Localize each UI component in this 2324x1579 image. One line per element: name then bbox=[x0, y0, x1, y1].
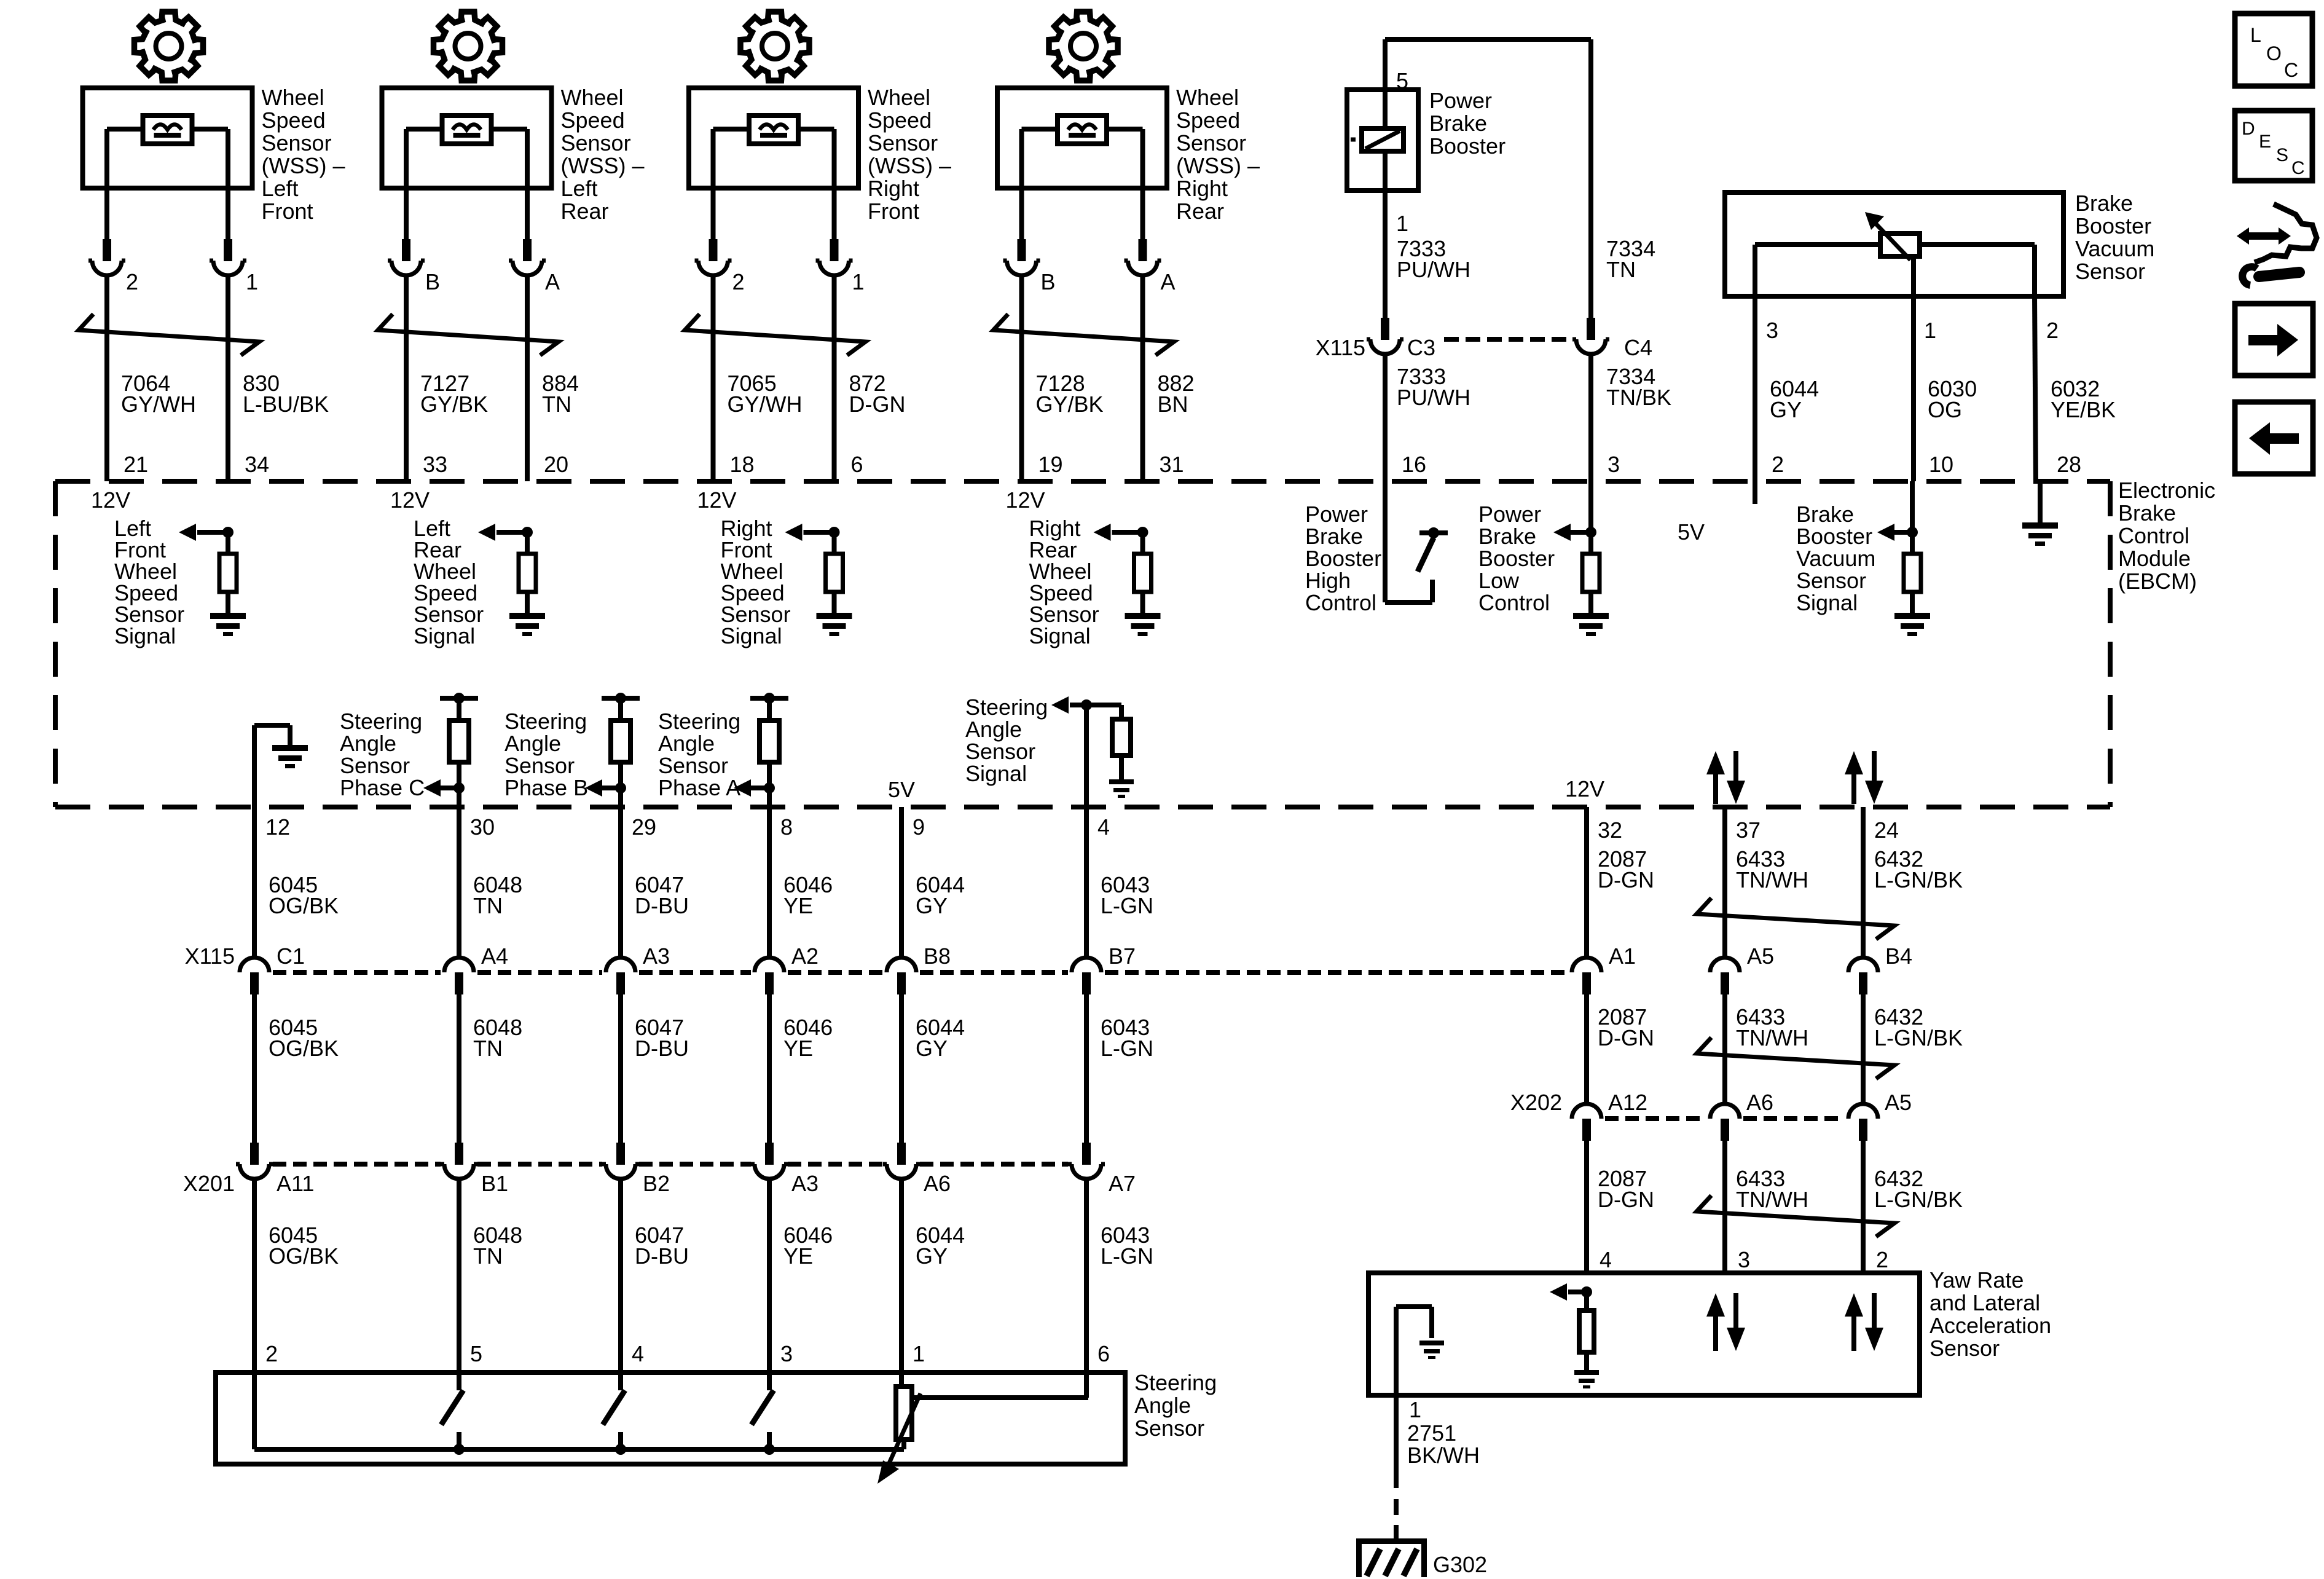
svg-text:2: 2 bbox=[126, 269, 138, 294]
pull-up resistor bbox=[226, 532, 230, 554]
Left Front WSS signal arrow and junction bbox=[222, 527, 234, 538]
svg-text:L-GN/BK: L-GN/BK bbox=[1874, 1187, 1963, 1212]
svg-text:Angle: Angle bbox=[658, 731, 715, 756]
wire bbox=[226, 275, 230, 481]
svg-text:Low: Low bbox=[1478, 568, 1520, 593]
svg-text:A: A bbox=[1161, 269, 1176, 294]
svg-text:Brake: Brake bbox=[1796, 502, 1854, 527]
svg-text:Sensor: Sensor bbox=[1176, 130, 1246, 156]
X115 row dashes bbox=[273, 970, 441, 975]
svg-text:1: 1 bbox=[913, 1341, 925, 1366]
svg-text:Wheel: Wheel bbox=[561, 85, 624, 110]
svg-text:TN/WH: TN/WH bbox=[1736, 1025, 1808, 1050]
svg-text:X115: X115 bbox=[185, 943, 235, 969]
connector X115 B7 bbox=[1082, 972, 1091, 994]
twisted pair symbol bbox=[1697, 1038, 1894, 1079]
Steering Angle Sensor Phase C pull-up bbox=[440, 696, 478, 701]
svg-text:Angle: Angle bbox=[1134, 1393, 1191, 1418]
svg-text:Booster: Booster bbox=[2075, 213, 2151, 238]
svg-text:34: 34 bbox=[245, 452, 269, 477]
Steering Angle Sensor Phase A pull-up bbox=[750, 696, 788, 701]
svg-text:37: 37 bbox=[1736, 817, 1761, 843]
Electronic Brake Control Module (EBCM) dashed outline bbox=[55, 479, 2110, 484]
svg-text:TN/BK: TN/BK bbox=[1606, 385, 1671, 410]
svg-text:A5: A5 bbox=[1885, 1090, 1912, 1115]
svg-text:Sensor: Sensor bbox=[658, 753, 728, 778]
svg-text:Rear: Rear bbox=[1176, 199, 1224, 224]
svg-text:2: 2 bbox=[1772, 452, 1784, 477]
svg-text:Booster: Booster bbox=[1429, 133, 1505, 159]
yaw internal ground trace bbox=[1396, 1304, 1432, 1309]
svg-text:Left: Left bbox=[262, 176, 299, 201]
connector terminal 2 bbox=[709, 239, 718, 261]
connector X115 A4 bbox=[455, 972, 463, 994]
svg-text:A3: A3 bbox=[791, 1171, 819, 1196]
svg-text:3: 3 bbox=[1766, 318, 1778, 343]
wire bbox=[832, 275, 837, 481]
svg-text:OG/BK: OG/BK bbox=[269, 1036, 339, 1061]
wire bbox=[767, 807, 772, 958]
svg-text:OG: OG bbox=[1928, 397, 1962, 422]
svg-text:Brake: Brake bbox=[1478, 524, 1536, 549]
WSS Right Front internal wires bbox=[713, 127, 750, 132]
svg-text:TN: TN bbox=[473, 1036, 503, 1061]
svg-text:32: 32 bbox=[1598, 817, 1622, 843]
wire bbox=[1383, 191, 1388, 318]
connector-view icon (wrench) bbox=[2243, 232, 2285, 240]
svg-text:Sensor: Sensor bbox=[340, 753, 410, 778]
WSS Right Rear internal wires bbox=[1022, 127, 1058, 132]
svg-text:12V: 12V bbox=[1565, 776, 1604, 801]
svg-text:Power: Power bbox=[1478, 502, 1541, 527]
svg-text:O: O bbox=[2266, 42, 2282, 65]
svg-text:Right: Right bbox=[1176, 176, 1228, 201]
BBVS internal wire bbox=[1755, 242, 2035, 247]
svg-text:Sensor: Sensor bbox=[504, 753, 575, 778]
svg-text:TN/WH: TN/WH bbox=[1736, 1187, 1808, 1212]
svg-text:D-BU: D-BU bbox=[635, 1036, 689, 1061]
svg-text:X201: X201 bbox=[183, 1171, 235, 1196]
svg-text:PU/WH: PU/WH bbox=[1397, 257, 1470, 282]
Wheel Speed Sensor (WSS) - Right Rear box bbox=[997, 88, 1167, 188]
WSS Left Front sensor element bbox=[143, 116, 192, 144]
Yaw Rate and Lateral Acceleration Sensor box bbox=[1368, 1273, 1920, 1395]
svg-text:GY: GY bbox=[916, 893, 948, 918]
SAS track link wire bbox=[912, 1395, 1088, 1400]
svg-text:Steering: Steering bbox=[340, 709, 422, 734]
connector X115 A5 bbox=[1721, 972, 1729, 994]
wire bbox=[1861, 807, 1866, 958]
connector terminal B bbox=[402, 239, 410, 261]
svg-text:L-BU/BK: L-BU/BK bbox=[243, 392, 329, 417]
svg-text:B8: B8 bbox=[924, 943, 951, 969]
yaw pin4 signal assembly bbox=[1581, 1286, 1592, 1297]
svg-text:X115: X115 bbox=[1316, 335, 1365, 360]
Right Rear WSS signal arrow and junction bbox=[1137, 527, 1148, 538]
wire bbox=[767, 994, 772, 1143]
Steering Angle Sensor Phase B pull-up bbox=[602, 696, 640, 701]
svg-text:Rear: Rear bbox=[561, 199, 609, 224]
junction bbox=[615, 1444, 626, 1455]
connector X201 A3 bbox=[765, 1143, 774, 1165]
wire bbox=[457, 1179, 461, 1372]
wire bbox=[618, 994, 623, 1143]
connector X115 A2 bbox=[765, 972, 774, 994]
pull-up resistor bbox=[1140, 532, 1145, 554]
wire bbox=[711, 129, 716, 240]
svg-text:12V: 12V bbox=[390, 487, 430, 513]
svg-text:Phase B: Phase B bbox=[504, 775, 588, 800]
svg-text:L: L bbox=[2250, 24, 2261, 46]
Power Brake Booster High Control switch bbox=[1383, 481, 1388, 602]
svg-text:B2: B2 bbox=[643, 1171, 670, 1196]
Steering Angle Sensor Signal assembly bbox=[1084, 705, 1089, 807]
SAS switch bbox=[457, 1372, 461, 1390]
gear icon - Right Front wheel bbox=[740, 12, 809, 81]
twisted pair symbol bbox=[685, 314, 866, 355]
svg-text:L-GN/BK: L-GN/BK bbox=[1874, 1025, 1963, 1050]
wire bbox=[104, 129, 109, 240]
WSS Right Front sensor element bbox=[749, 116, 798, 144]
wire bbox=[1084, 994, 1089, 1143]
Wheel Speed Sensor (WSS) - Right Front box bbox=[689, 88, 858, 188]
svg-text:Signal: Signal bbox=[1796, 590, 1858, 615]
connector X201 B2 bbox=[616, 1143, 625, 1165]
svg-text:12V: 12V bbox=[697, 487, 737, 513]
svg-text:Yaw Rate: Yaw Rate bbox=[1929, 1267, 2024, 1293]
svg-text:Angle: Angle bbox=[965, 717, 1022, 742]
svg-text:A12: A12 bbox=[1608, 1090, 1647, 1115]
wire bbox=[1588, 354, 1593, 481]
svg-text:A4: A4 bbox=[481, 943, 508, 969]
svg-text:12: 12 bbox=[265, 814, 290, 840]
connector terminal 2 bbox=[103, 239, 111, 261]
pull-up resistor bbox=[525, 532, 530, 554]
WSS Left Rear internal wires bbox=[406, 127, 442, 132]
svg-text:10: 10 bbox=[1929, 452, 1953, 477]
svg-text:OG/BK: OG/BK bbox=[269, 1243, 339, 1269]
connector X201 B1 bbox=[455, 1143, 463, 1165]
wire bbox=[525, 592, 530, 613]
connector X201 A7 bbox=[1082, 1143, 1091, 1165]
wire bbox=[1722, 1140, 1727, 1273]
svg-text:6: 6 bbox=[1097, 1341, 1110, 1366]
wire bbox=[252, 1179, 257, 1372]
svg-text:GY/BK: GY/BK bbox=[420, 392, 488, 417]
wire bbox=[1584, 1140, 1589, 1273]
Steering Angle Sensor box bbox=[216, 1372, 1125, 1464]
pin 28 internal ground bbox=[2038, 481, 2043, 522]
wire bbox=[1861, 1140, 1866, 1273]
ground bbox=[1125, 613, 1161, 619]
svg-text:TN: TN bbox=[473, 893, 503, 918]
svg-text:1: 1 bbox=[852, 269, 865, 294]
connector X115 C1 bbox=[250, 972, 259, 994]
svg-text:Signal: Signal bbox=[1029, 623, 1091, 648]
WSS Left Front internal wires bbox=[107, 127, 143, 132]
wire bbox=[1394, 1307, 1399, 1395]
Brake Booster Vacuum Sensor box bbox=[1725, 192, 2063, 296]
Power Brake Booster solenoid box bbox=[1347, 90, 1418, 191]
svg-text:(WSS) –: (WSS) – bbox=[868, 153, 951, 178]
svg-text:X202: X202 bbox=[1510, 1090, 1562, 1115]
svg-text:3: 3 bbox=[1738, 1247, 1750, 1272]
svg-text:A5: A5 bbox=[1747, 943, 1774, 969]
DESC icon box bbox=[2235, 111, 2312, 181]
pin 24 CAN arrows bbox=[1851, 772, 1856, 804]
connector X202 A12 bbox=[1582, 1119, 1591, 1141]
svg-text:Vacuum: Vacuum bbox=[2075, 236, 2154, 261]
forward arrow icon box bbox=[2235, 304, 2313, 376]
svg-text:High: High bbox=[1305, 568, 1351, 593]
svg-text:A1: A1 bbox=[1609, 943, 1636, 969]
svg-text:GY/WH: GY/WH bbox=[121, 392, 196, 417]
svg-text:TN/WH: TN/WH bbox=[1736, 867, 1808, 892]
svg-text:6: 6 bbox=[851, 452, 863, 477]
svg-text:GY: GY bbox=[916, 1036, 948, 1061]
svg-text:GY/WH: GY/WH bbox=[728, 392, 803, 417]
svg-text:Brake: Brake bbox=[1305, 524, 1363, 549]
svg-text:31: 31 bbox=[1160, 452, 1184, 477]
Brake Booster Vacuum Sensor Signal assembly bbox=[1910, 481, 1915, 554]
svg-text:1: 1 bbox=[246, 269, 258, 294]
SAS wiper arrow bbox=[885, 1393, 921, 1473]
wire bbox=[1140, 275, 1145, 481]
svg-text:Power: Power bbox=[1305, 502, 1368, 527]
svg-text:1: 1 bbox=[1924, 318, 1936, 343]
wire bbox=[1084, 1179, 1089, 1372]
svg-text:5: 5 bbox=[470, 1341, 482, 1366]
wire bbox=[1019, 275, 1024, 481]
ground bbox=[1419, 1341, 1444, 1345]
svg-text:Power: Power bbox=[1429, 88, 1492, 113]
wire bbox=[1722, 807, 1727, 958]
Power Brake Booster Low Control assembly bbox=[1588, 481, 1593, 554]
svg-text:Electronic: Electronic bbox=[2118, 478, 2215, 503]
svg-text:1: 1 bbox=[1409, 1397, 1421, 1422]
connector terminal A bbox=[523, 239, 532, 261]
svg-text:24: 24 bbox=[1874, 817, 1899, 843]
svg-text:Front: Front bbox=[262, 199, 313, 224]
svg-text:Left: Left bbox=[561, 176, 598, 201]
twisted pair symbol bbox=[994, 314, 1174, 355]
connector terminal 1 bbox=[224, 239, 232, 261]
svg-text:GY: GY bbox=[916, 1243, 948, 1269]
svg-text:Speed: Speed bbox=[1176, 108, 1240, 133]
connector X115 A1 bbox=[1582, 972, 1591, 994]
svg-text:Steering: Steering bbox=[658, 709, 740, 734]
wire bbox=[1584, 994, 1589, 1104]
wire bbox=[1753, 481, 1757, 504]
svg-text:GY/BK: GY/BK bbox=[1036, 392, 1104, 417]
svg-text:20: 20 bbox=[544, 452, 568, 477]
ground bbox=[509, 613, 545, 619]
junction bbox=[764, 1444, 775, 1455]
svg-text:Module: Module bbox=[2118, 546, 2191, 571]
X202 row dashes bbox=[1605, 1116, 1706, 1121]
ground bbox=[817, 613, 852, 619]
svg-text:Sensor: Sensor bbox=[1134, 1416, 1204, 1441]
svg-text:C: C bbox=[2284, 59, 2298, 81]
svg-text:D-BU: D-BU bbox=[635, 893, 689, 918]
wire bbox=[404, 129, 409, 240]
svg-text:Acceleration: Acceleration bbox=[1929, 1313, 2051, 1338]
svg-text:TN: TN bbox=[1606, 257, 1636, 282]
svg-text:S: S bbox=[2276, 145, 2288, 165]
BBVS potentiometer bbox=[1880, 234, 1920, 256]
svg-text:Brake: Brake bbox=[2118, 500, 2176, 526]
WSS Left Rear sensor element bbox=[442, 116, 492, 144]
svg-text:33: 33 bbox=[423, 452, 447, 477]
svg-text:(WSS) –: (WSS) – bbox=[262, 153, 345, 178]
connector X202 A5 bbox=[1859, 1119, 1867, 1141]
svg-text:Booster: Booster bbox=[1305, 546, 1381, 571]
svg-text:2: 2 bbox=[2046, 318, 2059, 343]
svg-text:C3: C3 bbox=[1407, 335, 1435, 360]
G302 ground symbol bbox=[1356, 1538, 1427, 1544]
gear icon - Left Rear wheel bbox=[434, 12, 503, 81]
svg-text:2: 2 bbox=[732, 269, 745, 294]
wire bbox=[457, 994, 461, 1143]
wire bbox=[226, 129, 230, 240]
svg-text:21: 21 bbox=[124, 452, 148, 477]
svg-text:1: 1 bbox=[1396, 211, 1408, 236]
svg-text:A2: A2 bbox=[791, 943, 819, 969]
svg-text:Booster: Booster bbox=[1478, 546, 1555, 571]
svg-text:30: 30 bbox=[470, 814, 495, 840]
wire bbox=[899, 994, 904, 1143]
svg-text:B: B bbox=[1041, 269, 1056, 294]
wire bbox=[1588, 39, 1593, 318]
wire bbox=[525, 275, 530, 481]
wire bbox=[1584, 807, 1589, 958]
svg-text:D-GN: D-GN bbox=[849, 392, 906, 417]
svg-text:B4: B4 bbox=[1885, 943, 1912, 969]
ground bbox=[210, 613, 246, 619]
svg-text:Wheel: Wheel bbox=[1176, 85, 1239, 110]
twisted pair symbol bbox=[1697, 1195, 1894, 1237]
LOC icon box bbox=[2235, 14, 2312, 86]
svg-text:B: B bbox=[425, 269, 440, 294]
svg-text:Sensor: Sensor bbox=[1929, 1336, 2000, 1361]
svg-text:3: 3 bbox=[780, 1341, 793, 1366]
connector terminal B bbox=[1018, 239, 1026, 261]
svg-text:L-GN: L-GN bbox=[1101, 893, 1153, 918]
WSS Right Rear sensor element bbox=[1058, 116, 1107, 144]
wire bbox=[404, 275, 409, 481]
svg-text:PU/WH: PU/WH bbox=[1397, 385, 1470, 410]
svg-text:YE/BK: YE/BK bbox=[2051, 397, 2116, 422]
svg-text:D-GN: D-GN bbox=[1598, 1025, 1654, 1050]
wire bbox=[1140, 592, 1145, 613]
Phase B junction and arrow bbox=[615, 782, 626, 793]
connector terminal A bbox=[1139, 239, 1147, 261]
wire bbox=[252, 807, 257, 958]
connector terminal 1 bbox=[830, 239, 839, 261]
wire bbox=[899, 807, 904, 958]
svg-text:C1: C1 bbox=[277, 943, 305, 969]
back arrow icon box bbox=[2235, 402, 2313, 474]
wire bbox=[767, 1179, 772, 1372]
svg-text:(WSS) –: (WSS) – bbox=[1176, 153, 1260, 178]
svg-text:Control: Control bbox=[1305, 590, 1376, 615]
svg-text:12V: 12V bbox=[1006, 487, 1045, 513]
connector X115 B4 bbox=[1859, 972, 1867, 994]
wire bbox=[1383, 39, 1388, 90]
Left Rear WSS signal arrow and junction bbox=[522, 527, 533, 538]
svg-text:YE: YE bbox=[783, 1243, 813, 1269]
svg-text:Signal: Signal bbox=[965, 761, 1027, 786]
svg-text:G302: G302 bbox=[1433, 1552, 1487, 1577]
svg-text:Speed: Speed bbox=[262, 108, 326, 133]
svg-text:16: 16 bbox=[1402, 452, 1426, 477]
svg-text:Front: Front bbox=[868, 199, 919, 224]
svg-text:BN: BN bbox=[1158, 392, 1188, 417]
twisted pair symbol bbox=[378, 314, 559, 355]
connector X202 A6 bbox=[1721, 1119, 1729, 1141]
wire bbox=[1084, 807, 1089, 958]
wire bbox=[1861, 994, 1866, 1104]
svg-text:Phase C: Phase C bbox=[340, 775, 425, 800]
connector X201 A6 bbox=[897, 1143, 906, 1165]
svg-text:BK/WH: BK/WH bbox=[1407, 1443, 1480, 1468]
Power Brake Booster top bus wire bbox=[1385, 37, 1591, 42]
svg-text:B7: B7 bbox=[1109, 943, 1136, 969]
Wheel Speed Sensor (WSS) - Left Rear box bbox=[382, 88, 552, 188]
svg-text:D: D bbox=[2242, 119, 2255, 139]
svg-text:D-GN: D-GN bbox=[1598, 867, 1654, 892]
twisted pair symbol bbox=[79, 314, 259, 355]
svg-text:GY: GY bbox=[1770, 397, 1802, 422]
wire bbox=[1019, 129, 1024, 240]
svg-text:D-BU: D-BU bbox=[635, 1243, 689, 1269]
wire bbox=[711, 275, 716, 481]
svg-text:29: 29 bbox=[632, 814, 656, 840]
svg-text:Wheel: Wheel bbox=[262, 85, 324, 110]
svg-text:L-GN: L-GN bbox=[1101, 1036, 1153, 1061]
svg-text:Phase A: Phase A bbox=[658, 775, 740, 800]
svg-text:19: 19 bbox=[1038, 452, 1063, 477]
svg-text:28: 28 bbox=[2057, 452, 2081, 477]
svg-text:OG/BK: OG/BK bbox=[269, 893, 339, 918]
svg-text:4: 4 bbox=[632, 1341, 644, 1366]
svg-text:Angle: Angle bbox=[504, 731, 561, 756]
svg-text:C4: C4 bbox=[1624, 335, 1652, 360]
svg-text:Sensor: Sensor bbox=[868, 130, 938, 156]
pin 12 internal ground trace bbox=[252, 725, 257, 807]
svg-text:YE: YE bbox=[783, 893, 813, 918]
svg-text:A6: A6 bbox=[1746, 1090, 1773, 1115]
X201 row dashes bbox=[273, 1162, 441, 1167]
svg-text:A7: A7 bbox=[1109, 1171, 1136, 1196]
svg-text:Signal: Signal bbox=[721, 623, 782, 648]
Phase A junction and arrow bbox=[764, 782, 775, 793]
pull-up resistor bbox=[832, 532, 837, 554]
connector X115 A3 bbox=[616, 972, 625, 994]
connector X115 C4 bbox=[1587, 318, 1595, 340]
wire bbox=[832, 592, 837, 613]
svg-text:and Lateral: and Lateral bbox=[1929, 1290, 2040, 1315]
svg-text:TN: TN bbox=[542, 392, 571, 417]
wire bbox=[226, 592, 230, 613]
svg-text:L-GN/BK: L-GN/BK bbox=[1874, 867, 1963, 892]
connector X115 B8 bbox=[897, 972, 906, 994]
SAS switch bbox=[767, 1372, 772, 1390]
wire bbox=[525, 129, 530, 240]
svg-text:9: 9 bbox=[913, 814, 925, 840]
wire bbox=[618, 1179, 623, 1372]
connector X201 A11 bbox=[250, 1143, 259, 1165]
